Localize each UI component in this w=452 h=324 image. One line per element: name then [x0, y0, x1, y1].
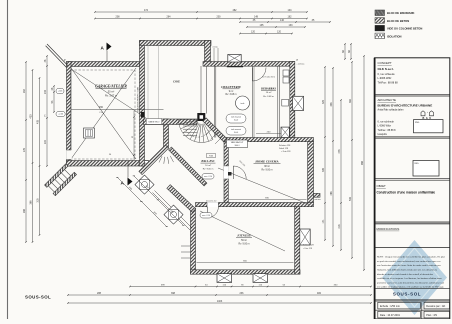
svg-text:Détail 128: Détail 128 — [279, 147, 289, 150]
svg-text:ext.terr: ext.terr — [315, 198, 322, 201]
hall level oval — [202, 174, 214, 180]
wall cave right — [205, 41, 211, 67]
svg-text:OBJET: OBJET — [377, 184, 387, 188]
boiler oval 1 — [226, 114, 246, 123]
svg-text:tank mazout: tank mazout — [231, 116, 241, 119]
svg-text:ISOLATION: ISOLATION — [387, 34, 401, 38]
svg-text:9 m²: 9 m² — [229, 90, 234, 93]
small ticks above chaufferie — [213, 48, 215, 61]
left dimension chain 5 — [53, 86, 55, 112]
wall chaufferie right — [290, 62, 295, 138]
black column in garage right wall — [141, 112, 145, 118]
left dimension chain 3 — [39, 78, 41, 235]
svg-text:Schéma 128: Schéma 128 — [303, 245, 314, 247]
svg-text:140: 140 — [280, 19, 285, 22]
svg-text:ISOLATION PERIPH. 50MM: ISOLATION PERIPH. 50MM — [137, 86, 140, 112]
svg-text:CONCEPT: CONCEPT — [378, 61, 392, 65]
wall fitness chamfer — [167, 185, 196, 213]
legend swatch 2 bloc de beton — [375, 18, 385, 24]
svg-text:Tél/Fax : 88 88 8: Tél/Fax : 88 88 8 — [378, 129, 397, 132]
debarras door leaf and arc — [252, 68, 254, 82]
wall garage bottom — [67, 161, 149, 167]
garage dashed ceiling line — [71, 70, 136, 159]
legend swatch 1 bloc de bisomark — [375, 10, 385, 16]
svg-text:HOME CINEMA: HOME CINEMA — [254, 160, 278, 164]
svg-text:162: 162 — [288, 16, 293, 19]
garage drain symbol — [84, 128, 95, 138]
svg-text:+ vent.bas: + vent.bas — [297, 63, 305, 66]
wall chaufferie top — [203, 62, 295, 67]
door opening in fitness top wall — [207, 202, 218, 207]
svg-text:L-9066 Wiltz: L-9066 Wiltz — [378, 77, 393, 80]
svg-text:362: 362 — [349, 98, 352, 103]
svg-text:120: 120 — [251, 31, 256, 34]
separator architecte/next — [375, 136, 450, 138]
svg-text:descente 4,0: descente 4,0 — [206, 199, 216, 202]
svg-text:405: 405 — [37, 119, 40, 124]
cave pipe line — [147, 46, 149, 119]
dim 240 inside debarras — [256, 133, 281, 135]
wall home cinema right — [308, 142, 314, 203]
page edge line — [7, 0, 9, 319]
svg-text:Rv: 3.08 m: Rv: 3.08 m — [225, 94, 236, 96]
svg-text:ent.lub.: ent.lub. — [213, 46, 219, 49]
window well above chaufferie top wall — [228, 55, 241, 63]
steps outside fitness left wall — [181, 245, 190, 247]
fitness leader line — [200, 211, 285, 251]
svg-text:Date : 10.07.2001: Date : 10.07.2001 — [380, 314, 400, 317]
svg-text:BLOC DE BETON: BLOC DE BETON — [387, 19, 409, 23]
wall cave top — [140, 41, 212, 46]
column terrace 2 — [164, 205, 183, 224]
wall diagonal hall southeast — [169, 147, 207, 186]
svg-text:+ Drta 128: + Drta 128 — [281, 150, 291, 153]
svg-text:59 m²: 59 m² — [241, 239, 247, 242]
right dimension chain 2 — [332, 68, 334, 246]
wall home cinema bottom / fitness top — [196, 203, 314, 207]
ramp wall top left — [47, 44, 68, 66]
bau logo icons — [421, 111, 425, 116]
svg-text:CAVE: CAVE — [173, 81, 180, 84]
window well right of chaufferie wall — [293, 96, 304, 110]
svg-text:env +2.10: env +2.10 — [204, 176, 212, 178]
svg-text:133: 133 — [289, 24, 294, 27]
svg-text:Rv: 9.00 m: Rv: 9.00 m — [238, 244, 249, 246]
column terrace 1 — [135, 175, 154, 194]
bottom dimension chain 2 — [68, 294, 371, 296]
blue diamond stamp — [382, 240, 447, 315]
svg-text:SOUS-SOL: SOUS-SOL — [25, 295, 51, 300]
column at chaufferie bottom right — [281, 127, 289, 137]
svg-text:Tél/Fax : 88 88 88: Tél/Fax : 88 88 88 — [378, 82, 399, 85]
tank mazout box — [227, 140, 248, 148]
svg-text:RANGE VELO: RANGE VELO — [149, 121, 161, 124]
boiler oval 2 — [226, 127, 246, 136]
top dimension chain 3 — [240, 21, 330, 23]
svg-text:TANK MAZOUT: TANK MAZOUT — [231, 141, 245, 144]
separator before modifications — [375, 221, 450, 223]
svg-text:mit Turbo Vent: mit Turbo Vent — [262, 76, 275, 79]
svg-text:482: 482 — [233, 9, 238, 12]
top dimension chain 5 — [240, 33, 292, 35]
svg-text:BUREAU D'ARCHITECTURE URBAINE: BUREAU D'ARCHITECTURE URBAINE — [378, 103, 433, 107]
svg-text:325: 325 — [322, 99, 325, 104]
wall diagonal hall southwest upper — [139, 145, 169, 175]
debarras wall to shaft — [252, 66, 254, 137]
svg-text:10 m²: 10 m² — [205, 164, 211, 167]
svg-text:Dessiné par : GK: Dessiné par : GK — [426, 305, 445, 308]
svg-text:366: 366 — [30, 200, 33, 205]
dim line inside home cinema — [229, 199, 307, 201]
svg-text:+ Drta 128: + Drta 128 — [303, 247, 312, 250]
svg-text:240: 240 — [44, 89, 47, 94]
svg-text:3-0-0: 3-0-0 — [234, 120, 238, 122]
svg-text:Rv: 3.08 m: Rv: 3.08 m — [263, 96, 274, 98]
svg-text:L-9066 Wiltz: L-9066 Wiltz — [378, 125, 392, 128]
svg-text:env +2.10: env +2.10 — [202, 215, 210, 217]
svg-text:10 m²: 10 m² — [266, 91, 272, 94]
svg-text:1403: 1403 — [217, 300, 223, 303]
shaft between cave and chaufferie — [200, 66, 202, 114]
svg-text:CHAUFFERIE: CHAUFFERIE — [221, 85, 241, 89]
bottom dimension chain 1 — [130, 286, 371, 288]
svg-text:488: 488 — [330, 191, 333, 196]
black column at stair — [197, 113, 205, 121]
tank circle — [236, 96, 250, 110]
svg-text:474: 474 — [144, 9, 149, 12]
wall fitness left — [191, 208, 196, 274]
right dimension chain 1 — [324, 67, 326, 240]
right small dims above chaufferie — [344, 44, 346, 59]
corridor treads along diagonal — [206, 127, 214, 135]
top dimension chain 2 — [95, 18, 307, 20]
svg-text:120: 120 — [277, 31, 282, 34]
beton label on wall — [139, 161, 149, 166]
separator before note — [375, 247, 450, 249]
svg-text:6, rue schleede: 6, rue schleede — [378, 73, 396, 76]
svg-text:218: 218 — [338, 224, 341, 229]
svg-text:Rv: 9.00 m: Rv: 9.00 m — [261, 169, 272, 171]
wall vertical at stair — [164, 119, 169, 148]
diagonal dim along terrace — [116, 175, 169, 228]
wall chaufferie bottom / home cinema top — [224, 138, 314, 142]
range velo label box on wall — [146, 119, 162, 125]
svg-text:Schéma 128: Schéma 128 — [279, 145, 291, 147]
window fitness bottom 2 — [253, 274, 268, 283]
debarras right wall thin — [277, 66, 279, 138]
home cinema door arc — [224, 166, 229, 179]
corridor steps below stair wall — [170, 156, 173, 162]
svg-text:Rv: 9.00 m: Rv: 9.00 m — [203, 168, 214, 170]
title block outer border — [375, 58, 450, 319]
window fitness bottom 1 — [217, 274, 232, 283]
svg-text:Construction d'une maison unif: Construction d'une maison unifamiliale — [377, 191, 436, 195]
wall home cinema left — [224, 142, 228, 203]
svg-text:546: 546 — [349, 196, 352, 201]
legend swatch 3 vide ou colonne beton — [375, 25, 385, 31]
top dimension chain 1 — [95, 11, 307, 13]
svg-text:DEBARRAS: DEBARRAS — [260, 88, 276, 91]
svg-text:38 m²: 38 m² — [264, 165, 270, 168]
svg-text:3-0-0: 3-0-0 — [234, 132, 238, 134]
svg-text:Plan : 3/9: Plan : 3/9 — [426, 314, 437, 317]
svg-text:264: 264 — [23, 88, 26, 93]
garage diagonal 1 — [71, 68, 136, 159]
svg-text:478: 478 — [338, 149, 341, 154]
svg-text:276: 276 — [23, 147, 26, 152]
stair upper flight treads — [183, 125, 197, 127]
svg-text:Echelle : 1/50 mm: Echelle : 1/50 mm — [380, 305, 400, 308]
svg-text:305: 305 — [322, 167, 325, 172]
level oval garage 2 — [56, 112, 65, 117]
wall fitness right — [295, 207, 300, 275]
svg-text:6, rue schleede: 6, rue schleede — [378, 120, 395, 123]
svg-text:264: 264 — [167, 16, 172, 19]
svg-text:430: 430 — [30, 114, 33, 119]
svg-text:288: 288 — [23, 208, 26, 213]
svg-text:VIDE OU COLONNE BETON: VIDE OU COLONNE BETON — [387, 27, 422, 31]
architecte logo box — [414, 120, 444, 133]
svg-text:171: 171 — [322, 219, 325, 224]
exterior stair southwest — [45, 164, 77, 196]
door leaf fitness — [206, 207, 208, 218]
left dimension chain 2 — [32, 70, 34, 242]
garage mid dimension line — [71, 109, 164, 111]
svg-text:OLK S.a.r.l.: OLK S.a.r.l. — [378, 67, 395, 71]
wall garage top — [67, 62, 140, 67]
svg-text:482: 482 — [317, 292, 322, 295]
sous-sol strip — [375, 288, 450, 290]
svg-text:338: 338 — [330, 102, 333, 107]
svg-text:HALL-ESC: HALL-ESC — [200, 160, 214, 163]
svg-text:+2.46: +2.46 — [58, 114, 63, 116]
svg-text:ARCHITECTE: ARCHITECTE — [378, 98, 397, 102]
svg-text:RND:: RND: — [414, 163, 419, 165]
separator before objet — [375, 178, 450, 180]
garage interior dim right — [133, 111, 135, 160]
svg-text:SOUS-SOL: SOUS-SOL — [393, 291, 421, 296]
stair walk line — [186, 128, 210, 137]
svg-text:988: 988 — [361, 160, 364, 165]
wall stub right of home cinema — [314, 193, 321, 197]
fitness level oval — [200, 213, 212, 219]
chaufferie left wall thin — [213, 66, 215, 138]
svg-text:MODIFICATIONS: MODIFICATIONS — [377, 227, 400, 231]
wall cave bottom — [144, 119, 198, 125]
svg-text:200: 200 — [217, 16, 222, 19]
svg-text:RND:: RND: — [415, 122, 420, 124]
svg-text:208: 208 — [116, 16, 121, 19]
svg-text:50 m²: 50 m² — [108, 90, 115, 93]
svg-text:P.40l: P.40l — [209, 156, 213, 158]
bottom dimension chain 3 — [68, 302, 371, 304]
garage diagonal 2 — [71, 68, 136, 159]
svg-text:+2.46: +2.46 — [58, 91, 63, 93]
level oval garage 1 — [56, 88, 64, 93]
svg-text:tank: tank — [241, 102, 245, 105]
terrace edge double line — [153, 193, 191, 231]
right dimension chain 5 — [363, 56, 365, 270]
svg-text:3000 l: 3000 l — [235, 145, 240, 147]
svg-text:104: 104 — [288, 9, 293, 12]
separator concept/architecte — [375, 94, 450, 96]
svg-text:tank mazout: tank mazout — [231, 128, 241, 131]
wall diagonal stair to home cinema corner — [203, 118, 227, 142]
svg-text:Anita Rab schlada dahm: Anita Rab schlada dahm — [378, 108, 404, 111]
legend swatch 4 isolation — [375, 33, 385, 39]
svg-text:288: 288 — [97, 292, 102, 295]
svg-text:222: 222 — [44, 139, 47, 144]
home cinema leader line — [218, 168, 310, 205]
dim line inside fitness — [197, 262, 294, 264]
svg-text:450: 450 — [99, 106, 104, 109]
svg-text:luxapolis: luxapolis — [378, 133, 388, 136]
right dimension chain 4 — [351, 62, 353, 258]
svg-text:2%: 2% — [45, 114, 47, 117]
svg-text:236: 236 — [240, 292, 245, 295]
svg-text:318: 318 — [37, 198, 40, 203]
garage door opening in left wall — [66, 150, 72, 160]
left dimension chain 4 — [46, 56, 48, 166]
svg-text:BLOC DE BISOMARK: BLOC DE BISOMARK — [387, 11, 415, 15]
stair winder treads — [179, 119, 198, 121]
wall between garage and cave — [140, 41, 145, 167]
shaft boxes right — [282, 99, 289, 106]
maitre ouvrage logo box — [413, 161, 439, 177]
top dimension chain 4 — [247, 26, 305, 28]
wall fitness bottom — [191, 270, 301, 274]
svg-text:398: 398 — [171, 292, 176, 295]
svg-text:GARAGE/ATELIER: GARAGE/ATELIER — [95, 84, 127, 88]
window fitness right — [300, 229, 310, 245]
right dimension chain 3 — [340, 100, 342, 250]
leader to range velo — [71, 69, 146, 118]
svg-text:135: 135 — [260, 24, 265, 27]
wall garage left — [67, 62, 72, 167]
title block bottom table — [378, 302, 421, 309]
svg-text:Rv: 3.07 m: Rv: 3.07 m — [105, 94, 117, 97]
left dimension chain 1 — [25, 62, 27, 242]
